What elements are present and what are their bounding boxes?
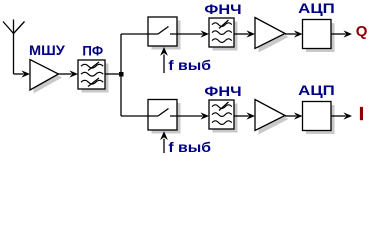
sampler switch bottom [152, 103, 181, 134]
amplifier bottom [259, 103, 289, 135]
antenna [3, 20, 25, 75]
wire sampler to ФНЧ bottom [177, 115, 203, 117]
amplifier МШУ (LNA) [34, 63, 63, 94]
wire sampler to ФНЧ top [177, 33, 203, 35]
svg-text:АЦП: АЦП [298, 0, 335, 16]
wire ПФ to junction [105, 73, 121, 75]
output wire Q [331, 33, 346, 35]
wire to top sampler [121, 33, 148, 35]
svg-text:f выб: f выб [168, 139, 211, 155]
sample clock arrow bottom [163, 139, 165, 153]
svg-text:f выб: f выб [168, 57, 211, 73]
svg-text:ФНЧ: ФНЧ [204, 1, 241, 17]
bandpass filter ПФ [82, 64, 109, 93]
svg-text:АЦП: АЦП [298, 82, 335, 98]
label I [360, 107, 363, 120]
wire LNA to ПФ [59, 73, 72, 75]
wire amp to АЦП bottom [285, 115, 296, 117]
svg-text:ФНЧ: ФНЧ [204, 83, 241, 99]
wire vertical split [120, 34, 122, 116]
node junction [119, 72, 124, 77]
wire ФНЧ to amp top [234, 33, 249, 35]
ADC box bottom [306, 105, 335, 134]
sampler switch top [152, 21, 181, 50]
wire antenna to LNA [14, 73, 24, 75]
sample clock arrow top [163, 55, 165, 74]
svg-text:Q: Q [356, 23, 368, 40]
ADC box top [306, 23, 335, 52]
amplifier top [259, 21, 289, 53]
output wire I [331, 115, 346, 117]
wire amp to АЦП top [285, 33, 296, 35]
svg-text:ПФ: ПФ [82, 43, 103, 59]
low-pass filter ФНЧ top [213, 22, 238, 51]
wire ФНЧ to amp bottom [234, 115, 249, 117]
low-pass filter ФНЧ bottom [213, 104, 238, 133]
svg-text:МШУ: МШУ [29, 42, 65, 58]
wire to bottom sampler [121, 115, 148, 117]
